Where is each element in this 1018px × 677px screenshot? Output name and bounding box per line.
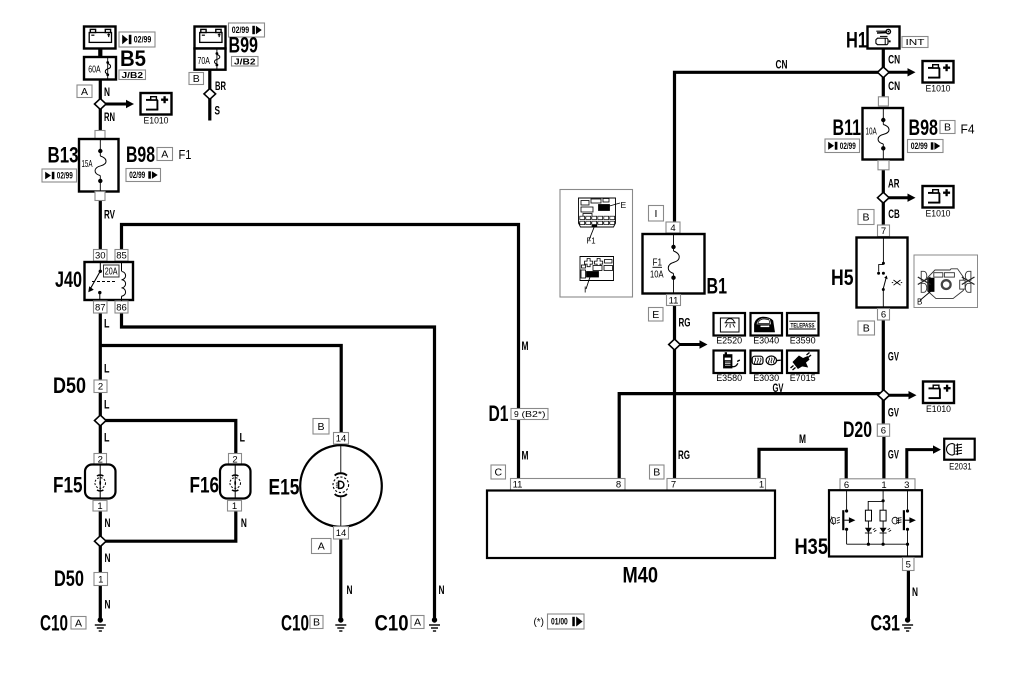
svg-text:B: B — [917, 298, 922, 307]
svg-text:A: A — [75, 617, 82, 629]
svg-text:CN: CN — [888, 79, 900, 93]
svg-text:60A: 60A — [88, 63, 100, 75]
svg-text:D50: D50 — [54, 566, 84, 591]
svg-text:B11: B11 — [833, 115, 862, 140]
svg-text:B: B — [862, 212, 869, 224]
svg-text:RG: RG — [679, 316, 691, 330]
svg-text:E1010: E1010 — [926, 404, 951, 415]
svg-text:H35: H35 — [795, 534, 829, 559]
svg-text:(B2*): (B2*) — [522, 409, 546, 419]
svg-text:F4: F4 — [961, 122, 975, 137]
svg-text:B99: B99 — [229, 33, 259, 58]
svg-text:E7015: E7015 — [790, 373, 816, 384]
svg-text:7: 7 — [671, 480, 676, 491]
svg-text:CN: CN — [776, 58, 788, 72]
svg-text:N: N — [105, 551, 111, 565]
svg-text:B: B — [653, 467, 660, 479]
svg-text:RG: RG — [678, 448, 690, 462]
svg-text:RN: RN — [104, 110, 115, 124]
svg-text:N: N — [104, 85, 110, 99]
svg-text:9: 9 — [514, 409, 519, 419]
svg-text:B: B — [863, 323, 870, 335]
svg-text:B5: B5 — [120, 46, 146, 71]
svg-text:BR: BR — [215, 79, 226, 93]
svg-text:02/99: 02/99 — [134, 35, 152, 45]
svg-text:C10: C10 — [281, 611, 309, 636]
svg-text:30: 30 — [95, 251, 106, 262]
svg-text:20A: 20A — [105, 267, 118, 278]
svg-text:B: B — [944, 122, 951, 134]
svg-text:C10: C10 — [40, 611, 68, 636]
svg-text:1: 1 — [759, 480, 764, 491]
svg-text:7: 7 — [881, 226, 886, 237]
svg-text:5: 5 — [906, 559, 911, 570]
svg-text:M40: M40 — [623, 563, 659, 588]
svg-text:E: E — [652, 309, 659, 321]
svg-text:S: S — [215, 104, 221, 118]
svg-text:N: N — [105, 598, 111, 612]
svg-text:L: L — [104, 431, 110, 445]
svg-text:M: M — [522, 339, 529, 353]
svg-text:B98: B98 — [126, 142, 155, 167]
svg-text:B: B — [317, 421, 324, 433]
svg-text:11: 11 — [513, 480, 523, 491]
svg-text:01/00: 01/00 — [551, 617, 568, 627]
svg-text:C31: C31 — [871, 611, 901, 636]
svg-text:I: I — [655, 208, 658, 220]
svg-text:L: L — [104, 317, 110, 331]
svg-text:GV: GV — [773, 381, 784, 395]
svg-text:J/B2: J/B2 — [234, 56, 256, 66]
svg-text:14: 14 — [336, 528, 347, 539]
svg-text:4: 4 — [670, 223, 675, 234]
svg-text:10A: 10A — [650, 270, 664, 281]
svg-text:E1010: E1010 — [144, 116, 169, 127]
svg-text:86: 86 — [116, 302, 127, 313]
svg-text:CN: CN — [888, 53, 900, 67]
svg-text:TELEPASS: TELEPASS — [791, 322, 815, 329]
svg-text:J40: J40 — [55, 267, 82, 292]
svg-text:D1: D1 — [489, 401, 509, 426]
svg-text:E3590: E3590 — [790, 336, 816, 347]
svg-text:8: 8 — [616, 480, 621, 491]
svg-text:02/99: 02/99 — [840, 141, 856, 151]
svg-text:H1: H1 — [846, 28, 867, 53]
svg-text:10A: 10A — [866, 125, 877, 137]
svg-text:6: 6 — [881, 310, 886, 321]
svg-text:E2520: E2520 — [716, 336, 742, 347]
svg-text:N: N — [105, 516, 111, 530]
svg-text:GV: GV — [888, 350, 899, 364]
svg-text:6: 6 — [881, 426, 886, 437]
svg-text:L: L — [240, 431, 246, 445]
svg-text:B: B — [193, 73, 200, 85]
svg-text:E1010: E1010 — [926, 84, 951, 95]
svg-text:1: 1 — [232, 501, 237, 512]
svg-text:N: N — [439, 583, 445, 597]
svg-text:1: 1 — [98, 574, 103, 585]
svg-text:C10: C10 — [375, 611, 409, 636]
svg-text:A: A — [318, 541, 325, 553]
svg-text:L: L — [104, 398, 110, 412]
svg-text:N: N — [241, 516, 247, 530]
svg-text:GV: GV — [888, 447, 899, 461]
svg-text:70A: 70A — [198, 55, 210, 67]
svg-text:E3040: E3040 — [753, 336, 779, 347]
svg-text:02/99: 02/99 — [57, 171, 73, 181]
svg-text:F16: F16 — [190, 473, 220, 498]
svg-text:2: 2 — [98, 382, 103, 393]
svg-text:87: 87 — [95, 302, 106, 313]
svg-text:15A: 15A — [82, 158, 93, 170]
svg-text:RV: RV — [104, 208, 115, 222]
svg-text:AR: AR — [888, 177, 900, 191]
svg-text:D50: D50 — [53, 373, 86, 398]
svg-text:F1: F1 — [179, 147, 192, 162]
svg-text:85: 85 — [116, 251, 127, 262]
svg-text:D20: D20 — [843, 417, 872, 442]
svg-text:J/B2: J/B2 — [122, 70, 144, 80]
svg-text:B13: B13 — [48, 143, 79, 168]
svg-text:E3580: E3580 — [716, 373, 742, 384]
svg-text:E: E — [621, 200, 627, 210]
svg-text:B: B — [313, 617, 320, 629]
svg-text:A: A — [161, 149, 168, 161]
svg-text:A: A — [414, 617, 421, 629]
svg-text:B98: B98 — [909, 115, 939, 140]
svg-text:F1: F1 — [587, 236, 596, 246]
svg-text:CB: CB — [888, 207, 900, 221]
svg-text:1: 1 — [97, 501, 102, 512]
svg-text:I: I — [584, 285, 586, 295]
svg-text:M: M — [522, 449, 529, 463]
svg-text:GV: GV — [888, 406, 899, 420]
svg-text:02/99: 02/99 — [911, 141, 928, 151]
svg-text:02/99: 02/99 — [129, 170, 145, 180]
svg-text:H5: H5 — [831, 265, 854, 290]
svg-text:E15: E15 — [269, 475, 300, 500]
svg-text:N: N — [912, 585, 918, 599]
svg-text:C: C — [494, 467, 502, 479]
svg-text:E2031: E2031 — [949, 462, 972, 473]
svg-text:M: M — [799, 432, 806, 446]
svg-text:11: 11 — [669, 295, 679, 306]
svg-text:N: N — [347, 583, 353, 597]
svg-text:E1010: E1010 — [926, 209, 951, 220]
svg-text:B1: B1 — [707, 274, 728, 299]
svg-text:A: A — [81, 86, 88, 98]
svg-text:INT: INT — [906, 37, 925, 47]
svg-text:(*): (*) — [534, 617, 545, 628]
svg-text:F15: F15 — [53, 473, 83, 498]
svg-text:L: L — [104, 362, 110, 376]
svg-text:14: 14 — [336, 434, 347, 445]
